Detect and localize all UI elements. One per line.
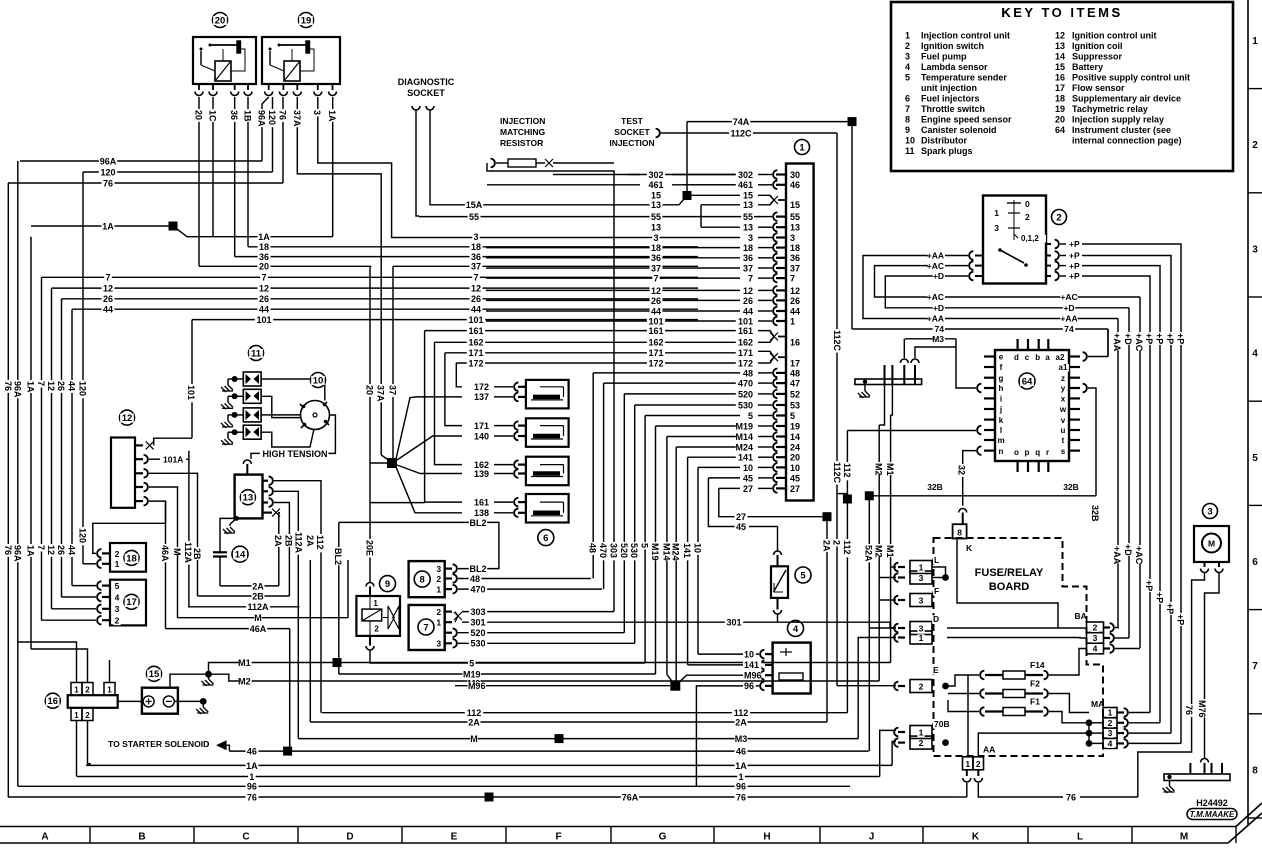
supplementary air device 18 id	[124, 550, 139, 565]
svg-text:+AA: +AA	[1060, 314, 1077, 324]
label 18 mid	[470, 243, 483, 252]
svg-text:101: 101	[738, 316, 753, 326]
board wire E-F1	[948, 700, 979, 712]
svg-text:37A: 37A	[376, 385, 386, 402]
svg-text:M: M	[1208, 539, 1215, 549]
wire 37A drop	[297, 97, 381, 430]
svg-text:12: 12	[46, 545, 56, 555]
svg-text:12: 12	[471, 284, 481, 294]
svg-text:8: 8	[905, 115, 910, 125]
label 96 bot b	[735, 783, 748, 792]
wire 70B2 left	[892, 742, 896, 766]
comp9 bottom pin	[369, 636, 371, 646]
svg-text:12: 12	[103, 284, 113, 294]
board wire F1 right	[1049, 712, 1089, 723]
svg-text:101A: 101A	[163, 455, 183, 465]
comp16 top boxes	[71, 683, 82, 696]
svg-text:36: 36	[651, 253, 661, 263]
svg-text:112C: 112C	[832, 330, 842, 352]
svg-text:48: 48	[470, 574, 480, 584]
wire +AC vertical	[1139, 297, 1141, 648]
label 461 c656	[647, 181, 665, 190]
ignition switch pin +D	[975, 275, 983, 277]
relay20 pin at 235	[234, 84, 236, 90]
svg-text:5: 5	[800, 570, 806, 581]
svg-text:76A: 76A	[622, 793, 639, 803]
ignition switch pin +AA	[975, 255, 983, 257]
svg-text:J: J	[869, 832, 875, 843]
svg-text:10: 10	[744, 649, 754, 659]
svg-text:w: w	[1059, 405, 1067, 414]
diagnostic socket text	[398, 78, 454, 87]
svg-text:13: 13	[743, 223, 753, 233]
cluster pin l wire	[977, 426, 981, 435]
svg-text:15A: 15A	[466, 200, 483, 210]
label 3 c656	[652, 234, 659, 243]
test socket pin	[656, 129, 660, 138]
label 171 mid2	[467, 349, 485, 358]
positive supply control 16 id	[45, 693, 60, 708]
wire AA1 to 76A	[966, 783, 968, 797]
label 44 c656	[650, 307, 663, 316]
label 101 b	[255, 316, 273, 325]
svg-text:M3: M3	[932, 334, 944, 344]
svg-text:2A: 2A	[305, 535, 315, 547]
svg-text:36: 36	[471, 252, 481, 262]
svg-text:1A: 1A	[102, 222, 114, 232]
board wire 32 internal	[957, 539, 1058, 629]
svg-text:u: u	[1061, 426, 1066, 435]
svg-text:+D: +D	[933, 271, 944, 281]
wire 76A bottom	[489, 796, 952, 798]
label 37 mid	[470, 263, 483, 272]
svg-text:17: 17	[126, 597, 137, 608]
cluster pin a2 wire	[1083, 352, 1087, 361]
battery 15 box	[142, 688, 178, 714]
lambda sensor 4 box	[773, 643, 811, 694]
svg-text:530: 530	[470, 639, 485, 649]
label 20 vert	[365, 384, 375, 397]
MA wires to +P	[1129, 712, 1150, 714]
svg-text:7: 7	[905, 104, 910, 114]
svg-text:Ignition control unit: Ignition control unit	[1072, 31, 1156, 41]
comp16 top wires	[18, 642, 77, 683]
wire 20 to inj4	[370, 502, 425, 504]
svg-text:1: 1	[738, 772, 743, 782]
svg-text:5: 5	[905, 73, 910, 83]
svg-text:13: 13	[651, 223, 661, 233]
svg-text:76: 76	[103, 179, 113, 189]
svg-text:36: 36	[259, 252, 269, 262]
ignition switch pin +P 266	[1046, 265, 1051, 267]
svg-text:171: 171	[474, 421, 489, 431]
wire 45 below comp1	[708, 478, 740, 527]
svg-text:16: 16	[790, 338, 800, 348]
svg-text:101: 101	[186, 385, 196, 400]
svg-text:20: 20	[365, 385, 375, 395]
wire 52A vertical	[868, 496, 870, 751]
wire M1 row	[209, 663, 891, 675]
battery top wire	[170, 674, 209, 688]
svg-text:M96: M96	[744, 671, 762, 681]
svg-text:3: 3	[919, 596, 924, 606]
label 112 bot b	[732, 709, 750, 718]
svg-text:1: 1	[436, 584, 441, 594]
svg-text:T.M.MAAKE: T.M.MAAKE	[1190, 810, 1235, 819]
label M1 vert	[885, 462, 895, 476]
svg-text:64: 64	[1022, 376, 1033, 387]
svg-text:52: 52	[790, 389, 800, 399]
fuse relay board outline	[934, 538, 1104, 756]
label 76 bottom right	[1065, 794, 1078, 803]
svg-text:3: 3	[748, 233, 753, 243]
label 32B b	[1062, 483, 1079, 491]
svg-text:112C: 112C	[832, 462, 842, 484]
svg-text:l: l	[1000, 426, 1002, 435]
svg-text:32B: 32B	[1090, 505, 1100, 522]
label 12 c656	[650, 287, 663, 296]
svg-text:4: 4	[115, 592, 120, 602]
svg-text:139: 139	[474, 469, 489, 479]
svg-text:52A: 52A	[864, 545, 874, 562]
label 2A mid	[252, 582, 265, 591]
wire 120 far-left vertical	[82, 172, 84, 564]
svg-text:76: 76	[3, 545, 13, 555]
distributor 10 id	[311, 373, 326, 388]
wire AA2 to 76	[978, 783, 1063, 797]
temp sender pins	[774, 551, 782, 555]
svg-text:K: K	[966, 543, 973, 553]
wire 96A top row	[20, 160, 262, 162]
svg-text:19: 19	[1055, 104, 1065, 114]
svg-text:M1: M1	[885, 463, 895, 476]
svg-text:2B: 2B	[284, 535, 294, 547]
svg-text:14: 14	[235, 550, 246, 561]
wire 76 pump	[1138, 573, 1205, 797]
svg-text:12: 12	[122, 413, 133, 424]
wire 1A far-left vertical	[30, 237, 32, 649]
svg-text:1B: 1B	[243, 110, 253, 122]
svg-text:46: 46	[247, 747, 257, 757]
board wire E bus	[948, 675, 979, 686]
label 470 a	[469, 586, 487, 595]
wire +AA row	[947, 318, 1118, 320]
label 112A mid	[246, 603, 270, 612]
svg-text:161: 161	[474, 497, 489, 507]
label 32B a	[926, 483, 943, 491]
svg-text:1: 1	[919, 563, 924, 573]
comp12 pin3 wire	[149, 473, 198, 596]
label 2A bot b	[735, 718, 748, 727]
label M3 bot b	[735, 735, 748, 744]
svg-text:3: 3	[436, 564, 441, 574]
cluster pin y wire	[1083, 384, 1087, 393]
fuse relay board text	[975, 567, 1043, 577]
instrument cluster box	[995, 350, 1069, 461]
wire M corner up	[347, 560, 349, 618]
svg-text:1A: 1A	[258, 232, 270, 242]
fuse F2	[980, 689, 984, 698]
comp13 pins	[263, 480, 269, 482]
MA pin 712	[1118, 711, 1125, 713]
svg-text:F2: F2	[1030, 679, 1040, 689]
svg-text:36: 36	[790, 253, 800, 263]
svg-text:3: 3	[905, 52, 910, 62]
wire 1A bottom row	[86, 764, 892, 766]
temp sender 5 id	[795, 567, 811, 583]
wire 120 top row	[83, 171, 273, 173]
svg-text:20: 20	[1055, 115, 1065, 125]
svg-text:12: 12	[743, 286, 753, 296]
svg-text:96: 96	[744, 681, 754, 691]
wire D1 left	[858, 638, 896, 739]
svg-text:20: 20	[259, 262, 269, 272]
BA pin 638	[1104, 637, 1111, 639]
svg-text:2A: 2A	[468, 717, 480, 727]
comp7 pins	[435, 608, 442, 616]
svg-text:M24: M24	[671, 543, 681, 561]
svg-text:BL2: BL2	[469, 518, 486, 528]
svg-text:70B: 70B	[934, 719, 950, 729]
svg-text:44: 44	[67, 545, 77, 555]
svg-text:44: 44	[259, 305, 269, 315]
svg-text:+P: +P	[1069, 251, 1080, 261]
svg-text:5: 5	[748, 411, 753, 421]
svg-text:L: L	[1077, 832, 1083, 843]
label 171 c656	[647, 349, 665, 358]
relay19 pin at 283	[282, 84, 284, 90]
svg-text:12: 12	[1055, 31, 1065, 41]
svg-text:47: 47	[790, 379, 800, 389]
wire M3 bottom row	[298, 738, 858, 740]
svg-text:520: 520	[470, 628, 485, 638]
label 7 a	[104, 274, 111, 283]
junction M1	[333, 658, 342, 667]
svg-text:2: 2	[115, 549, 120, 559]
svg-text:172: 172	[474, 382, 489, 392]
wire 12 far-left vertical	[51, 288, 53, 609]
label 7 b	[260, 274, 267, 283]
label 7 mid	[472, 274, 479, 283]
comp18 pins	[114, 550, 121, 558]
svg-text:s: s	[1061, 447, 1066, 456]
svg-text:3: 3	[1252, 244, 1258, 255]
svg-text:55: 55	[469, 212, 479, 222]
svg-text:a: a	[1045, 353, 1050, 362]
svg-text:6: 6	[543, 533, 548, 544]
svg-text:+P: +P	[1069, 239, 1080, 249]
svg-text:1: 1	[107, 686, 112, 695]
svg-text:171: 171	[738, 348, 753, 358]
svg-text:17: 17	[1055, 83, 1065, 93]
svg-text:+AA: +AA	[1112, 546, 1122, 565]
engine speed sensor 8 box	[409, 561, 445, 597]
svg-text:M: M	[1180, 832, 1188, 843]
svg-text:Fuel injectors: Fuel injectors	[921, 94, 980, 104]
svg-text:37: 37	[388, 385, 398, 395]
label 2A bot a	[468, 718, 481, 727]
svg-text:520: 520	[619, 543, 629, 558]
comp13 pin4 wire	[279, 513, 280, 586]
svg-text:172: 172	[648, 358, 663, 368]
svg-text:1A: 1A	[327, 110, 337, 122]
distributor ticks	[324, 402, 327, 405]
label M96 mid	[468, 682, 486, 691]
svg-text:D: D	[346, 832, 353, 843]
svg-text:L: L	[934, 555, 939, 565]
wire row 101	[192, 319, 698, 321]
wire 15A from diag	[430, 110, 687, 205]
relay20 pin labels	[194, 109, 204, 122]
svg-text:19: 19	[301, 15, 312, 26]
wire 2B row mid	[198, 595, 290, 597]
drawing frame right ruler	[1247, 0, 1249, 826]
lambda internals	[780, 651, 792, 653]
svg-text:Flow sensor: Flow sensor	[1072, 83, 1125, 93]
wire 302 row	[553, 174, 640, 176]
label 46 b	[735, 748, 748, 757]
svg-text:E: E	[933, 665, 939, 675]
high tension text	[262, 450, 329, 459]
wire BL2 link	[338, 522, 340, 674]
svg-text:INJECTION: INJECTION	[500, 116, 545, 126]
wire 46A row mid	[166, 628, 290, 630]
wire M2 vertical	[879, 385, 884, 426]
svg-text:2: 2	[1056, 212, 1061, 223]
wire 52A to D3	[869, 627, 896, 629]
fuse F1	[980, 707, 984, 716]
label BL2 vert	[333, 547, 343, 565]
cluster bar pins	[884, 365, 886, 385]
label 1 bot a	[248, 773, 255, 782]
wire 2A row mid	[220, 585, 279, 587]
svg-text:Positive supply control unit: Positive supply control unit	[1072, 73, 1190, 83]
svg-text:b: b	[1035, 353, 1040, 362]
wire 46A drop to 46	[289, 629, 291, 752]
svg-text:171: 171	[648, 348, 663, 358]
label 112C a	[729, 129, 753, 138]
wire 96A drop	[261, 120, 263, 161]
ignition switch pin +AC	[975, 265, 983, 267]
label 15 c656	[650, 192, 663, 201]
injector boxes	[526, 380, 569, 409]
svg-text:470: 470	[598, 543, 608, 558]
svg-text:0: 0	[1025, 199, 1030, 209]
svg-text:1: 1	[790, 316, 795, 326]
comp9 top pin	[366, 583, 374, 587]
label 76	[102, 180, 115, 189]
svg-text:96A: 96A	[257, 110, 267, 127]
label 37A vert	[376, 384, 386, 402]
relay20 pin at 213	[212, 84, 214, 90]
svg-text:26: 26	[743, 296, 753, 306]
svg-text:MA: MA	[1091, 699, 1104, 709]
ignition switch pin +P 276	[1046, 275, 1051, 277]
wire 112C	[661, 132, 837, 134]
svg-text:26: 26	[259, 294, 269, 304]
comp18 pin1 wire	[83, 563, 96, 565]
wire 112A vert	[188, 459, 190, 607]
svg-text:H24492: H24492	[1196, 798, 1228, 808]
svg-text:1: 1	[249, 772, 254, 782]
svg-text:Temperature sender: Temperature sender	[921, 73, 1007, 83]
svg-text:M: M	[470, 734, 478, 744]
label 520 a	[469, 629, 487, 638]
svg-text:y: y	[1061, 384, 1066, 393]
label 44 mid	[470, 306, 483, 315]
wire 26 far-left vertical	[61, 299, 63, 597]
svg-text:461: 461	[738, 180, 753, 190]
svg-text:55: 55	[790, 212, 800, 222]
svg-text:15: 15	[743, 191, 753, 201]
svg-text:7: 7	[423, 622, 428, 633]
svg-text:k: k	[999, 416, 1004, 425]
svg-text:37A: 37A	[292, 110, 302, 127]
svg-text:14: 14	[1055, 52, 1065, 62]
svg-text:26: 26	[651, 296, 661, 306]
fuel pump pins	[1204, 562, 1206, 567]
comp13 ground	[234, 516, 239, 521]
svg-text:16: 16	[1055, 73, 1065, 83]
test socket injection text	[621, 117, 643, 125]
board wire F14 down	[967, 675, 969, 757]
wire M96 row	[675, 675, 759, 686]
svg-text:26: 26	[56, 381, 66, 391]
svg-text:55: 55	[743, 212, 753, 222]
svg-text:3: 3	[115, 604, 120, 614]
wire 10 row	[698, 653, 759, 655]
instrument cluster id circle	[1019, 373, 1035, 389]
wire 301 row	[462, 621, 890, 623]
label 1A bot a	[246, 762, 259, 771]
svg-text:2: 2	[1252, 140, 1258, 151]
svg-text:48: 48	[790, 368, 800, 378]
svg-text:27: 27	[790, 484, 800, 494]
svg-text:14: 14	[790, 432, 800, 442]
board wire F2 right	[1049, 694, 1089, 713]
label M1 row	[239, 659, 252, 668]
svg-text:7: 7	[653, 274, 658, 284]
flow sensor 17 id	[124, 594, 139, 609]
temp sender symbol	[774, 570, 787, 592]
svg-text:46A: 46A	[250, 624, 267, 634]
svg-text:470: 470	[470, 585, 485, 595]
svg-text:120: 120	[267, 110, 277, 125]
pump bar pins	[1189, 763, 1191, 774]
relay19 pin swap curve	[262, 97, 269, 120]
svg-text:KEY TO ITEMS: KEY TO ITEMS	[1001, 5, 1122, 20]
svg-text:20: 20	[215, 15, 226, 26]
svg-text:2A: 2A	[252, 581, 264, 591]
svg-text:E: E	[451, 832, 458, 843]
svg-text:Lambda sensor: Lambda sensor	[921, 62, 988, 72]
label 1 bot b	[737, 773, 744, 782]
svg-text:Instrument cluster (see: Instrument cluster (see	[1072, 125, 1171, 135]
board connector F	[933, 587, 940, 595]
svg-text:BA: BA	[1075, 611, 1087, 621]
svg-text:2: 2	[436, 574, 441, 584]
svg-text:Ignition coil: Ignition coil	[1072, 41, 1123, 51]
svg-text:530: 530	[738, 400, 753, 410]
svg-text:j: j	[999, 405, 1002, 414]
wire +P4	[1082, 276, 1150, 713]
comp13 pin3 wire	[274, 503, 289, 597]
svg-text:162: 162	[468, 338, 483, 348]
svg-text:76: 76	[1066, 793, 1076, 803]
label 18 c656	[650, 244, 663, 253]
wire 32 vertical	[962, 469, 964, 506]
MA pin 723	[1118, 722, 1125, 724]
